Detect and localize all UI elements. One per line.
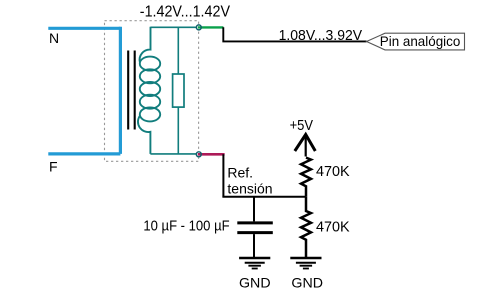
wire ref vertical xyxy=(222,154,224,197)
secondary top wire xyxy=(151,26,197,28)
net tag: Pin analógico xyxy=(367,33,465,50)
capacitor C1 lead top xyxy=(253,197,255,222)
svg-text:GND: GND xyxy=(291,275,323,291)
wire reference (crimson) xyxy=(198,153,225,156)
capacitor C1 xyxy=(237,221,272,224)
svg-text:Ref.: Ref. xyxy=(227,165,253,181)
damping resistor (burden) xyxy=(173,74,184,107)
damping resistor leads xyxy=(177,27,179,154)
transformer T1 primary xyxy=(119,27,122,154)
svg-text:N: N xyxy=(49,30,59,46)
wire F (mains live) xyxy=(48,152,120,155)
ref rail wire xyxy=(222,196,306,198)
ground (resistor branch) xyxy=(290,258,321,269)
svg-text:tensión: tensión xyxy=(227,181,272,197)
wire to analog pin (black) xyxy=(223,27,366,41)
svg-text:-1.42V...1.42V: -1.42V...1.42V xyxy=(140,4,230,21)
resistor R1 470K xyxy=(301,158,311,197)
node: secondary - terminal xyxy=(196,152,201,157)
node: secondary + terminal xyxy=(196,25,201,30)
transformer T1 secondary coil xyxy=(138,27,160,154)
dashed enclosure (transformer module) xyxy=(105,21,199,162)
svg-text:1.08V...3.92V: 1.08V...3.92V xyxy=(279,28,363,44)
svg-text:GND: GND xyxy=(239,275,271,291)
secondary bottom wire xyxy=(150,153,196,155)
capacitor C1 lead bottom xyxy=(253,234,255,257)
wire AC output (green) xyxy=(198,26,224,28)
ground (capacitor branch) xyxy=(239,258,270,269)
node mask bottom xyxy=(196,151,203,158)
svg-text:Pin analógico: Pin analógico xyxy=(380,33,461,49)
+5V supply arrow xyxy=(295,135,316,152)
transformer core bar 2 xyxy=(134,51,136,130)
wire N (mains neutral) xyxy=(48,27,120,30)
node mask top xyxy=(196,24,203,31)
svg-text:470K: 470K xyxy=(316,219,350,235)
transformer core bar 1 xyxy=(127,51,129,130)
svg-text:10 µF - 100 µF: 10 µF - 100 µF xyxy=(143,218,229,235)
svg-text:+5V: +5V xyxy=(290,118,314,134)
svg-text:470K: 470K xyxy=(316,164,350,180)
svg-text:F: F xyxy=(49,158,58,174)
resistor R2 470K xyxy=(301,197,311,258)
